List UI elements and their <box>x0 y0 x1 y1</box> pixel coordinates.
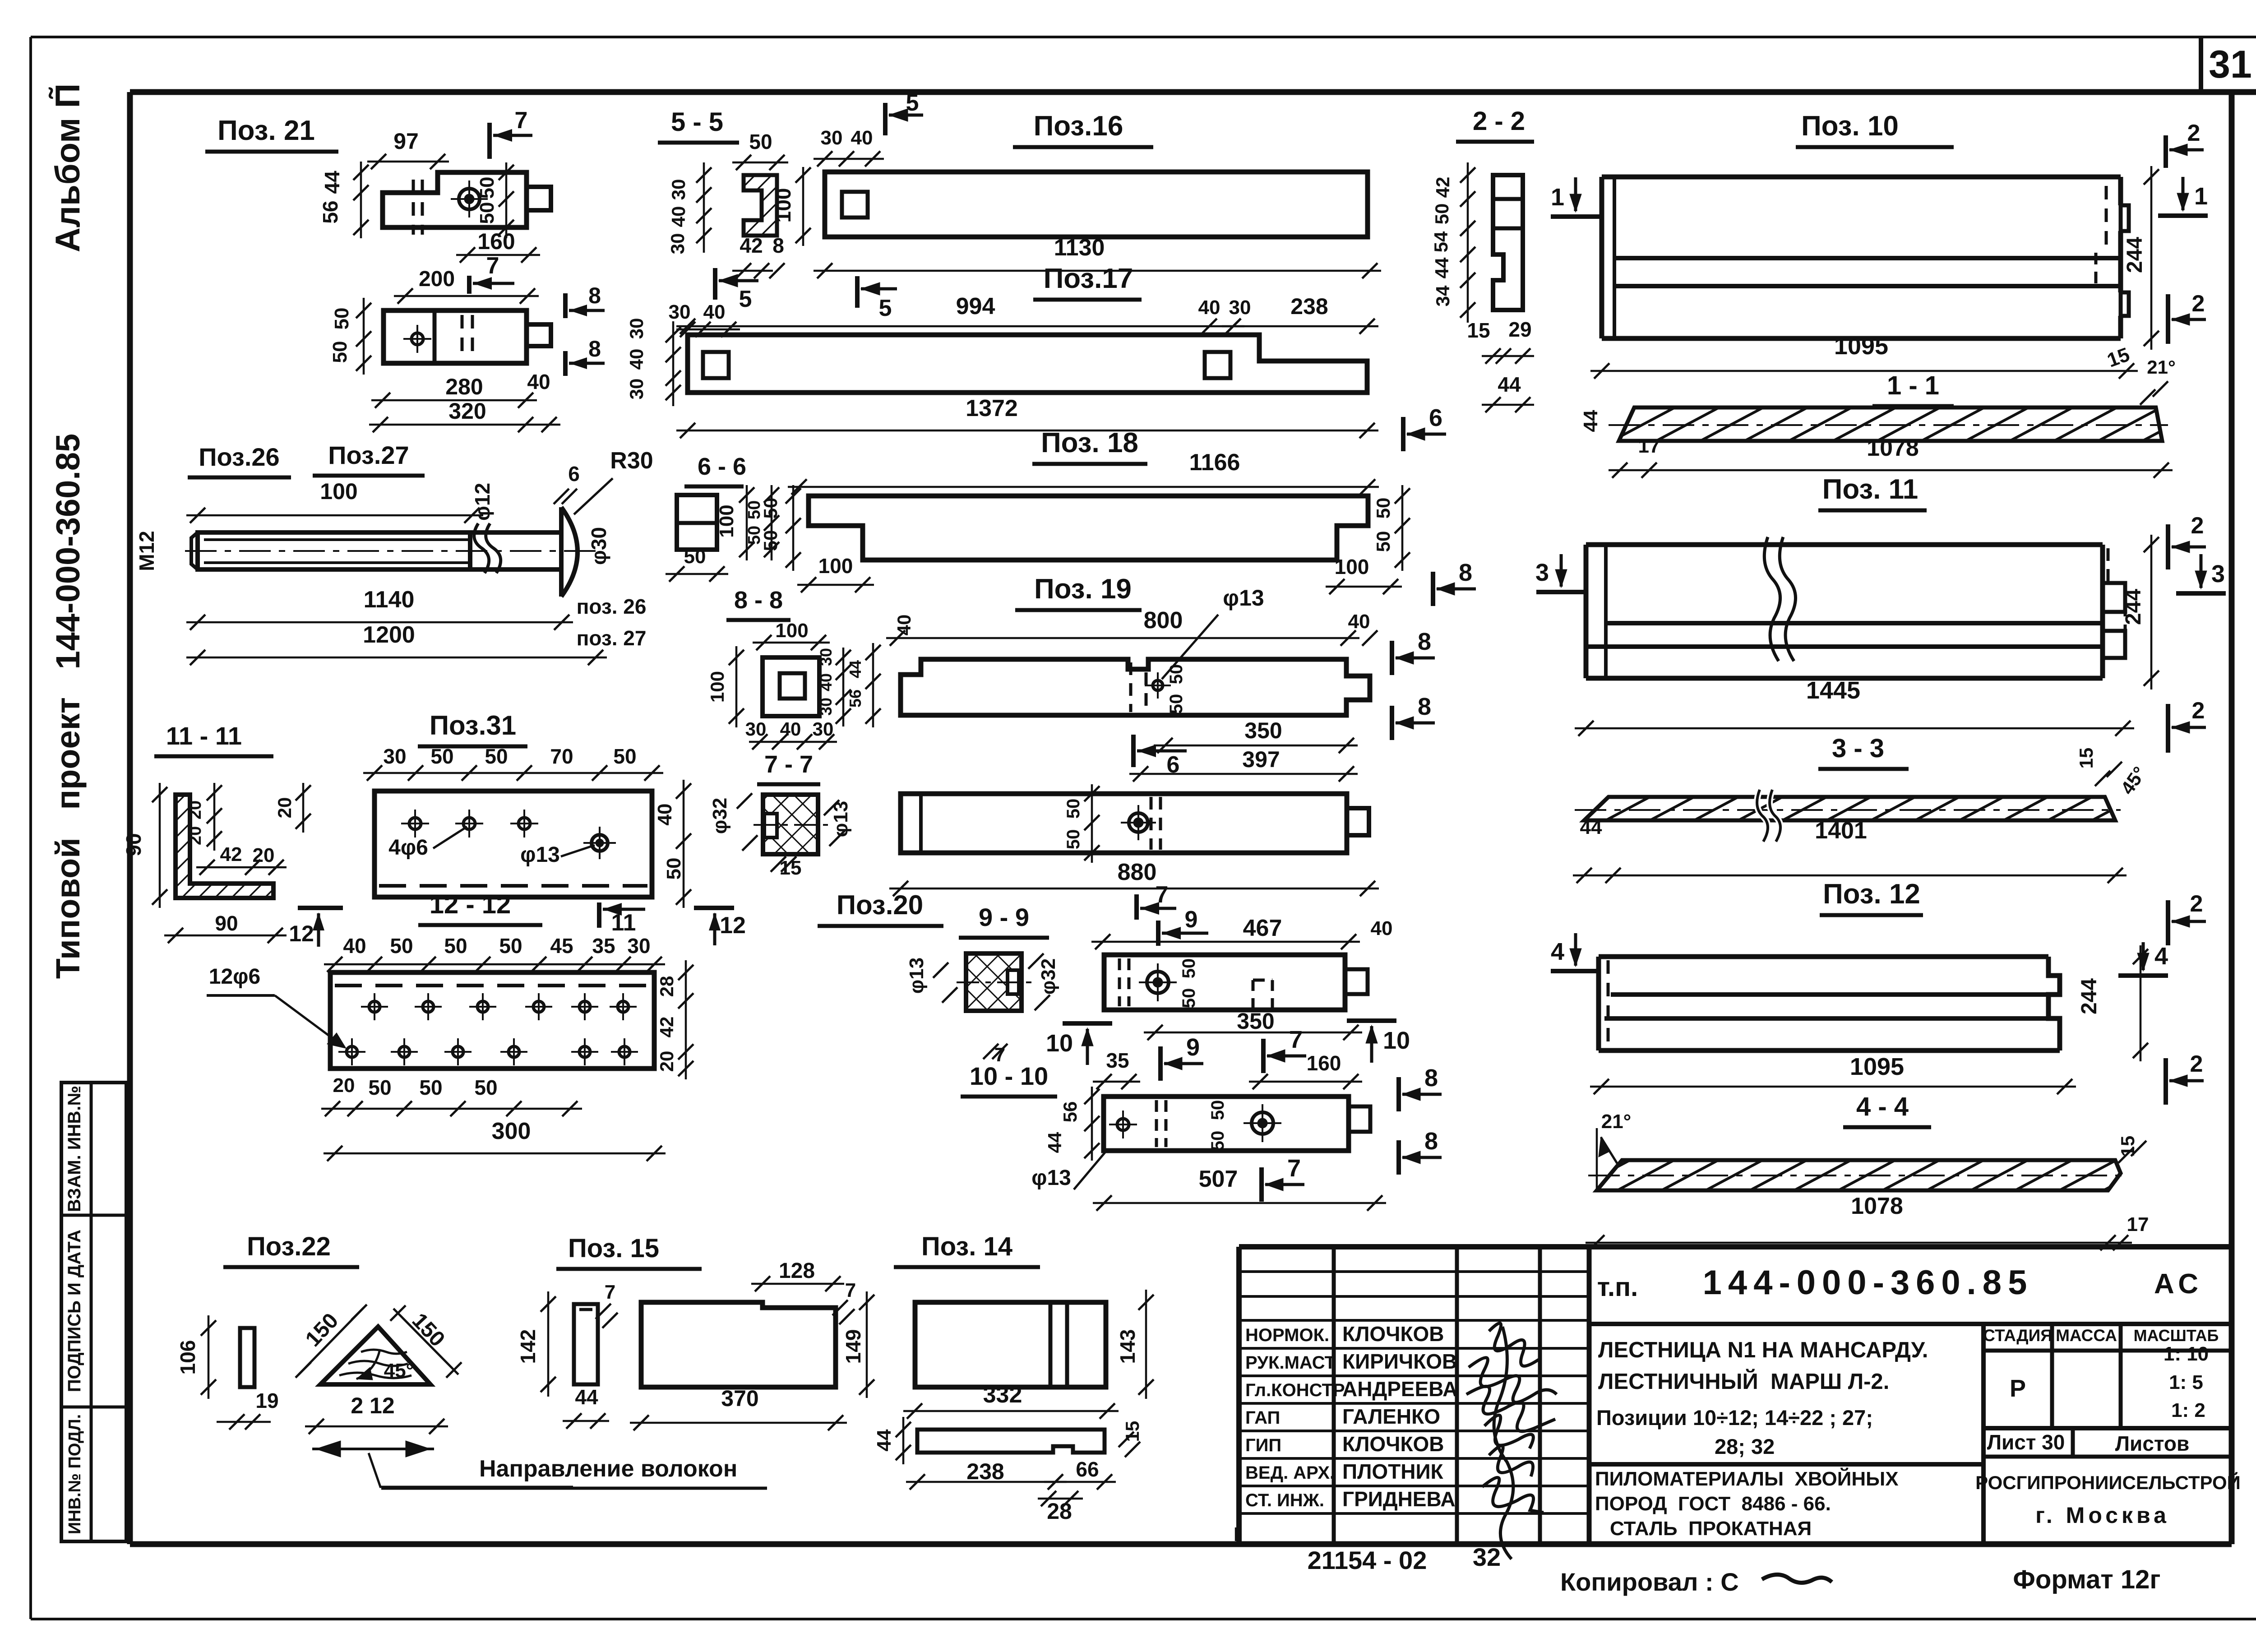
svg-text:1095: 1095 <box>1850 1053 1904 1080</box>
svg-text:ЛЕСТНИЧНЫЙ МАРШ Л-2.: ЛЕСТНИЧНЫЙ МАРШ Л-2. <box>1598 1369 1889 1394</box>
svg-text:97: 97 <box>393 129 419 154</box>
svg-text:44: 44 <box>575 1385 598 1409</box>
svg-text:ГИП: ГИП <box>1245 1435 1281 1455</box>
svg-text:7: 7 <box>486 253 499 279</box>
svg-text:7: 7 <box>845 1279 856 1301</box>
svg-text:100: 100 <box>772 188 795 223</box>
svg-text:50: 50 <box>1373 531 1394 552</box>
svg-text:2: 2 <box>2190 1051 2203 1077</box>
svg-text:100: 100 <box>716 504 738 537</box>
svg-text:1445: 1445 <box>1806 677 1860 704</box>
svg-text:30: 30 <box>745 718 767 740</box>
svg-text:66: 66 <box>1076 1458 1099 1481</box>
svg-text:АС: АС <box>2154 1268 2203 1300</box>
svg-text:100: 100 <box>775 620 808 642</box>
svg-text:ПОДПИСЬ И ДАТА: ПОДПИСЬ И ДАТА <box>65 1230 84 1392</box>
svg-text:21°: 21° <box>1601 1111 1632 1133</box>
svg-text:40: 40 <box>1198 296 1220 319</box>
svg-text:40: 40 <box>1348 611 1370 633</box>
svg-text:30: 30 <box>813 718 834 740</box>
svg-text:70: 70 <box>550 745 573 768</box>
svg-text:1 - 1: 1 - 1 <box>1887 371 1939 400</box>
svg-text:Поз.31: Поз.31 <box>430 710 516 740</box>
svg-text:56: 56 <box>846 689 864 708</box>
svg-text:40: 40 <box>343 934 366 958</box>
svg-text:50: 50 <box>430 745 453 768</box>
svg-text:142: 142 <box>516 1329 540 1364</box>
svg-text:6 - 6: 6 - 6 <box>698 453 746 480</box>
svg-text:10: 10 <box>1046 1030 1073 1057</box>
svg-text:7: 7 <box>1156 882 1169 908</box>
svg-text:44: 44 <box>1498 373 1521 396</box>
svg-text:ИНВ.№ ПОДЛ.: ИНВ.№ ПОДЛ. <box>65 1414 84 1534</box>
svg-text:1401: 1401 <box>1815 818 1867 844</box>
svg-text:42: 42 <box>656 1017 677 1038</box>
svg-text:20: 20 <box>186 826 205 845</box>
svg-text:8: 8 <box>588 283 601 308</box>
svg-text:КЛОЧКОВ: КЛОЧКОВ <box>1342 1432 1444 1456</box>
svg-text:20: 20 <box>274 797 295 819</box>
svg-text:9 - 9: 9 - 9 <box>979 903 1029 931</box>
svg-text:10 - 10: 10 - 10 <box>970 1062 1048 1090</box>
svg-text:15: 15 <box>1122 1421 1143 1442</box>
svg-text:50: 50 <box>444 934 467 958</box>
svg-text:40: 40 <box>654 804 676 826</box>
svg-text:φ13: φ13 <box>1223 585 1264 611</box>
svg-text:φ32: φ32 <box>1037 958 1059 995</box>
svg-text:8: 8 <box>1424 1128 1438 1155</box>
svg-text:29: 29 <box>1508 318 1531 341</box>
svg-text:5 - 5: 5 - 5 <box>671 107 723 137</box>
svg-text:44: 44 <box>846 660 864 678</box>
svg-text:50: 50 <box>745 526 764 545</box>
svg-text:100: 100 <box>320 479 357 504</box>
svg-text:32: 32 <box>1473 1543 1501 1571</box>
svg-text:56: 56 <box>1059 1101 1081 1123</box>
svg-text:20: 20 <box>186 801 205 819</box>
svg-text:1078: 1078 <box>1851 1193 1903 1219</box>
svg-text:19: 19 <box>255 1389 278 1412</box>
svg-text:7: 7 <box>515 107 528 134</box>
svg-text:50: 50 <box>1063 829 1083 850</box>
svg-text:40: 40 <box>626 349 647 370</box>
svg-text:31: 31 <box>2209 43 2252 86</box>
svg-text:880: 880 <box>1118 859 1157 885</box>
svg-text:φ32: φ32 <box>709 798 731 834</box>
svg-text:ГАЛЕНКО: ГАЛЕНКО <box>1342 1405 1440 1428</box>
svg-text:поз. 26: поз. 26 <box>577 595 647 618</box>
svg-text:50: 50 <box>476 202 498 224</box>
svg-text:143: 143 <box>1116 1329 1139 1364</box>
svg-text:21°: 21° <box>2147 356 2176 378</box>
svg-text:СТАЛЬ ПРОКАТНАЯ: СТАЛЬ ПРОКАТНАЯ <box>1610 1518 1812 1540</box>
svg-text:6: 6 <box>568 462 580 486</box>
svg-text:12: 12 <box>289 921 314 946</box>
svg-text:40: 40 <box>851 127 873 149</box>
svg-text:11: 11 <box>611 910 636 936</box>
svg-text:2: 2 <box>2187 120 2201 146</box>
svg-text:8: 8 <box>588 336 601 361</box>
svg-text:Поз. 18: Поз. 18 <box>1041 427 1138 458</box>
svg-text:35: 35 <box>592 934 615 958</box>
svg-text:106: 106 <box>176 1340 199 1375</box>
svg-text:244: 244 <box>2077 978 2101 1014</box>
svg-text:42: 42 <box>220 843 242 865</box>
svg-text:30: 30 <box>817 648 835 666</box>
svg-text:ПОРОД ГОСТ 8486 - 66.: ПОРОД ГОСТ 8486 - 66. <box>1595 1493 1831 1515</box>
svg-text:4: 4 <box>2154 943 2168 970</box>
svg-text:т.п.: т.п. <box>1597 1273 1638 1302</box>
svg-text:397: 397 <box>1242 747 1280 772</box>
svg-text:30: 30 <box>626 379 647 400</box>
svg-text:φ12: φ12 <box>471 483 494 521</box>
svg-text:1: 2: 1: 2 <box>2171 1399 2205 1421</box>
svg-text:M12: M12 <box>135 531 158 571</box>
svg-text:РОСГИПРОНИИСЕЛЬСТРОЙ: РОСГИПРОНИИСЕЛЬСТРОЙ <box>1975 1472 2241 1493</box>
svg-text:2: 2 <box>2192 698 2205 724</box>
svg-text:1130: 1130 <box>1054 235 1105 261</box>
svg-text:44: 44 <box>1580 410 1602 432</box>
svg-text:238: 238 <box>966 1459 1004 1484</box>
svg-text:ГАП: ГАП <box>1245 1408 1280 1428</box>
svg-text:Поз. 14: Поз. 14 <box>921 1232 1012 1261</box>
svg-text:44: 44 <box>320 171 344 194</box>
svg-text:ГРИДНЕВА: ГРИДНЕВА <box>1342 1487 1456 1511</box>
svg-text:17: 17 <box>1638 435 1660 457</box>
svg-text:1140: 1140 <box>364 587 415 613</box>
svg-text:244: 244 <box>2123 237 2147 273</box>
svg-text:ЛЕСТНИЦА N1 НА МАНСАРДУ.: ЛЕСТНИЦА N1 НА МАНСАРДУ. <box>1598 1338 1928 1362</box>
svg-text:994: 994 <box>956 293 995 319</box>
svg-text:238: 238 <box>1290 294 1328 319</box>
svg-text:50: 50 <box>613 745 636 768</box>
svg-text:Копировал : С: Копировал : С <box>1560 1568 1739 1596</box>
svg-text:160: 160 <box>1307 1051 1341 1075</box>
svg-text:50: 50 <box>474 1076 497 1099</box>
svg-text:50: 50 <box>1208 1100 1228 1120</box>
svg-text:370: 370 <box>721 1386 758 1411</box>
svg-text:СТАДИЯ: СТАДИЯ <box>1983 1326 2053 1345</box>
svg-text:44: 44 <box>1044 1132 1065 1153</box>
svg-text:100: 100 <box>818 554 853 578</box>
svg-text:4φ6: 4φ6 <box>388 836 428 860</box>
svg-text:φ13: φ13 <box>520 843 560 867</box>
svg-text:1372: 1372 <box>966 395 1018 421</box>
svg-text:56: 56 <box>319 200 342 223</box>
svg-text:17: 17 <box>2127 1213 2149 1236</box>
svg-text:40: 40 <box>527 370 550 393</box>
svg-text:Лист 30: Лист 30 <box>1987 1430 2065 1454</box>
svg-text:2 - 2: 2 - 2 <box>1473 106 1525 136</box>
svg-text:R30: R30 <box>610 448 653 474</box>
svg-text:Формат 12г: Формат 12г <box>2013 1565 2160 1594</box>
svg-text:40: 40 <box>703 301 726 323</box>
svg-text:50: 50 <box>1179 958 1199 979</box>
svg-text:РУК.МАСТ: РУК.МАСТ <box>1245 1353 1336 1373</box>
svg-text:2 12: 2 12 <box>351 1393 394 1418</box>
svg-text:30: 30 <box>668 179 689 200</box>
svg-text:15: 15 <box>1467 319 1490 342</box>
svg-text:50: 50 <box>1063 799 1083 819</box>
svg-text:30: 30 <box>383 745 406 768</box>
svg-text:поз. 27: поз. 27 <box>577 626 647 650</box>
svg-text:Поз. 19: Поз. 19 <box>1034 574 1132 605</box>
svg-text:30: 30 <box>817 698 835 716</box>
svg-text:Поз. 21: Поз. 21 <box>217 115 315 146</box>
svg-text:8 - 8: 8 - 8 <box>734 587 783 614</box>
svg-text:45: 45 <box>550 934 573 958</box>
svg-text:40: 40 <box>668 206 689 227</box>
svg-text:φ13: φ13 <box>1031 1166 1071 1190</box>
svg-text:144-000-360.85: 144-000-360.85 <box>1703 1263 2034 1302</box>
svg-text:ВЕД. АРХ.: ВЕД. АРХ. <box>1245 1463 1335 1483</box>
svg-text:44: 44 <box>1431 257 1452 278</box>
svg-text:30: 30 <box>626 318 647 339</box>
svg-text:Поз.17: Поз.17 <box>1044 263 1133 294</box>
svg-text:30: 30 <box>821 127 843 149</box>
svg-text:12: 12 <box>720 912 746 939</box>
svg-text:9: 9 <box>1185 907 1198 933</box>
svg-text:Типовой проект 144-000-360: Типовой проект 144-000-360.85 <box>49 434 87 979</box>
svg-text:Р: Р <box>2010 1375 2026 1402</box>
svg-text:Альбом П̃: Альбом П̃ <box>49 83 87 252</box>
svg-text:СТ. ИНЖ.: СТ. ИНЖ. <box>1245 1490 1324 1510</box>
svg-text:5: 5 <box>879 295 892 321</box>
svg-text:ПИЛОМАТЕРИАЛЫ ХВОЙНЫХ: ПИЛОМАТЕРИАЛЫ ХВОЙНЫХ <box>1595 1467 1899 1490</box>
svg-text:Поз. 12: Поз. 12 <box>1823 879 1920 910</box>
svg-text:50: 50 <box>1431 204 1452 225</box>
svg-text:30: 30 <box>669 301 691 323</box>
svg-text:Поз.26: Поз.26 <box>199 443 279 471</box>
svg-text:54: 54 <box>1430 231 1452 252</box>
svg-text:332: 332 <box>983 1382 1022 1408</box>
svg-text:10: 10 <box>1383 1027 1410 1054</box>
svg-text:7 - 7: 7 - 7 <box>764 751 813 778</box>
svg-text:Поз. 15: Поз. 15 <box>568 1234 659 1263</box>
svg-text:50: 50 <box>485 745 508 768</box>
svg-text:44: 44 <box>873 1429 895 1451</box>
svg-text:9: 9 <box>1186 1034 1200 1061</box>
svg-text:42: 42 <box>1432 177 1453 198</box>
svg-text:1: 1 <box>1551 184 1564 211</box>
svg-text:Листов: Листов <box>2115 1432 2189 1455</box>
svg-text:8: 8 <box>1424 1064 1438 1092</box>
svg-text:20: 20 <box>333 1074 355 1097</box>
svg-text:7: 7 <box>605 1281 615 1303</box>
svg-text:50: 50 <box>749 130 772 153</box>
svg-text:20: 20 <box>656 1051 677 1072</box>
svg-text:ПЛОТНИК: ПЛОТНИК <box>1342 1460 1444 1483</box>
svg-text:МАССА: МАССА <box>2056 1326 2117 1345</box>
svg-text:1166: 1166 <box>1189 449 1240 476</box>
svg-text:Поз.20: Поз.20 <box>837 890 923 920</box>
svg-text:МАСШТАБ: МАСШТАБ <box>2134 1326 2219 1345</box>
svg-text:8: 8 <box>1418 628 1431 655</box>
svg-text:30: 30 <box>667 233 688 255</box>
svg-text:φ30: φ30 <box>587 527 610 565</box>
svg-text:4 - 4: 4 - 4 <box>1856 1092 1909 1121</box>
svg-text:КЛОЧКОВ: КЛОЧКОВ <box>1342 1322 1444 1346</box>
svg-text:90: 90 <box>215 912 238 935</box>
svg-text:45°: 45° <box>384 1360 414 1382</box>
svg-text:128: 128 <box>779 1259 815 1283</box>
svg-text:КИРИЧКОВ: КИРИЧКОВ <box>1342 1350 1457 1373</box>
svg-text:244: 244 <box>2122 589 2145 625</box>
svg-text:12 - 12: 12 - 12 <box>430 890 511 919</box>
svg-text:15: 15 <box>2076 748 2097 769</box>
svg-text:50: 50 <box>329 341 351 363</box>
svg-text:34: 34 <box>1432 285 1453 306</box>
svg-text:50: 50 <box>684 546 706 568</box>
svg-text:100: 100 <box>707 671 728 703</box>
svg-text:ВЗАМ. ИНВ.№: ВЗАМ. ИНВ.№ <box>65 1086 84 1212</box>
svg-text:50: 50 <box>390 934 413 958</box>
svg-text:6: 6 <box>1167 752 1180 778</box>
svg-text:1: 10: 1: 10 <box>2164 1343 2209 1365</box>
svg-text:8: 8 <box>1418 693 1431 720</box>
svg-text:50: 50 <box>1166 694 1186 714</box>
svg-text:200: 200 <box>419 267 455 291</box>
svg-text:5: 5 <box>739 286 752 312</box>
svg-text:280: 280 <box>445 374 483 399</box>
svg-text:50: 50 <box>663 858 685 880</box>
svg-text:Поз. 10: Поз. 10 <box>1801 111 1899 142</box>
svg-text:5: 5 <box>906 90 919 116</box>
svg-text:800: 800 <box>1144 607 1183 634</box>
svg-text:35: 35 <box>1106 1049 1129 1072</box>
svg-text:8: 8 <box>1459 559 1472 586</box>
svg-text:7: 7 <box>1287 1155 1301 1182</box>
svg-text:50: 50 <box>331 308 353 330</box>
svg-text:350: 350 <box>1237 1009 1274 1034</box>
svg-text:320: 320 <box>448 398 486 424</box>
svg-text:1078: 1078 <box>1867 435 1919 461</box>
svg-text:Поз.27: Поз.27 <box>328 441 409 469</box>
svg-text:507: 507 <box>1199 1166 1238 1192</box>
svg-text:50: 50 <box>1208 1131 1228 1151</box>
svg-text:50: 50 <box>745 500 764 519</box>
svg-text:11 - 11: 11 - 11 <box>166 722 242 750</box>
svg-text:12φ6: 12φ6 <box>209 965 260 989</box>
svg-text:50: 50 <box>368 1076 391 1099</box>
svg-text:40: 40 <box>817 673 835 691</box>
svg-text:6: 6 <box>1429 404 1442 431</box>
svg-text:1095: 1095 <box>1834 333 1888 360</box>
svg-text:Поз.22: Поз.22 <box>247 1232 331 1261</box>
svg-text:50: 50 <box>499 934 522 958</box>
svg-text:НОРМОК.: НОРМОК. <box>1245 1325 1329 1345</box>
svg-text:1: 1 <box>2194 183 2208 210</box>
svg-text:3 - 3: 3 - 3 <box>1832 734 1884 763</box>
svg-text:1200: 1200 <box>363 622 415 648</box>
svg-text:I: I <box>1234 1523 1239 1546</box>
svg-text:40: 40 <box>780 718 801 740</box>
svg-text:50: 50 <box>1179 988 1199 1009</box>
svg-text:30: 30 <box>627 934 650 958</box>
svg-text:350: 350 <box>1244 718 1282 743</box>
svg-text:467: 467 <box>1243 915 1282 941</box>
svg-text:160: 160 <box>477 229 515 254</box>
svg-text:50: 50 <box>419 1076 442 1099</box>
svg-text:г. Москва: г. Москва <box>2035 1503 2170 1528</box>
svg-text:Гл.КОНСТР: Гл.КОНСТР <box>1245 1380 1345 1400</box>
svg-text:3: 3 <box>2211 560 2225 588</box>
svg-text:АНДРЕЕВА: АНДРЕЕВА <box>1342 1377 1457 1401</box>
svg-text:2: 2 <box>2191 513 2204 539</box>
svg-text:50: 50 <box>1373 498 1394 519</box>
svg-text:28; 32: 28; 32 <box>1715 1435 1775 1458</box>
svg-text:149: 149 <box>841 1329 865 1364</box>
svg-text:φ13: φ13 <box>906 958 928 994</box>
svg-text:1: 5: 1: 5 <box>2169 1371 2203 1393</box>
svg-text:50: 50 <box>1166 664 1186 685</box>
svg-text:40: 40 <box>1371 917 1393 939</box>
svg-text:42: 42 <box>740 234 763 257</box>
svg-text:90: 90 <box>122 833 145 856</box>
svg-text:100: 100 <box>1335 555 1369 578</box>
svg-text:4: 4 <box>1551 938 1564 965</box>
svg-text:Поз. 11: Поз. 11 <box>1822 474 1918 505</box>
svg-text:3: 3 <box>1535 559 1549 586</box>
svg-text:Позиции 10÷12; 14÷22 ; 27;: Позиции 10÷12; 14÷22 ; 27; <box>1596 1406 1873 1430</box>
svg-text:40: 40 <box>893 615 915 636</box>
svg-text:21154 - 02: 21154 - 02 <box>1308 1546 1427 1574</box>
svg-text:300: 300 <box>492 1118 531 1144</box>
svg-text:28: 28 <box>656 976 677 997</box>
svg-text:50: 50 <box>476 177 498 199</box>
svg-text:2: 2 <box>2192 291 2205 317</box>
svg-text:8: 8 <box>772 234 784 257</box>
svg-text:7: 7 <box>1289 1026 1303 1053</box>
svg-text:2: 2 <box>2190 891 2203 917</box>
svg-text:44: 44 <box>1580 816 1602 838</box>
svg-text:Поз.16: Поз.16 <box>1034 111 1123 142</box>
svg-text:Направление волокон: Направление волокон <box>479 1456 737 1482</box>
svg-text:30: 30 <box>1229 296 1251 319</box>
